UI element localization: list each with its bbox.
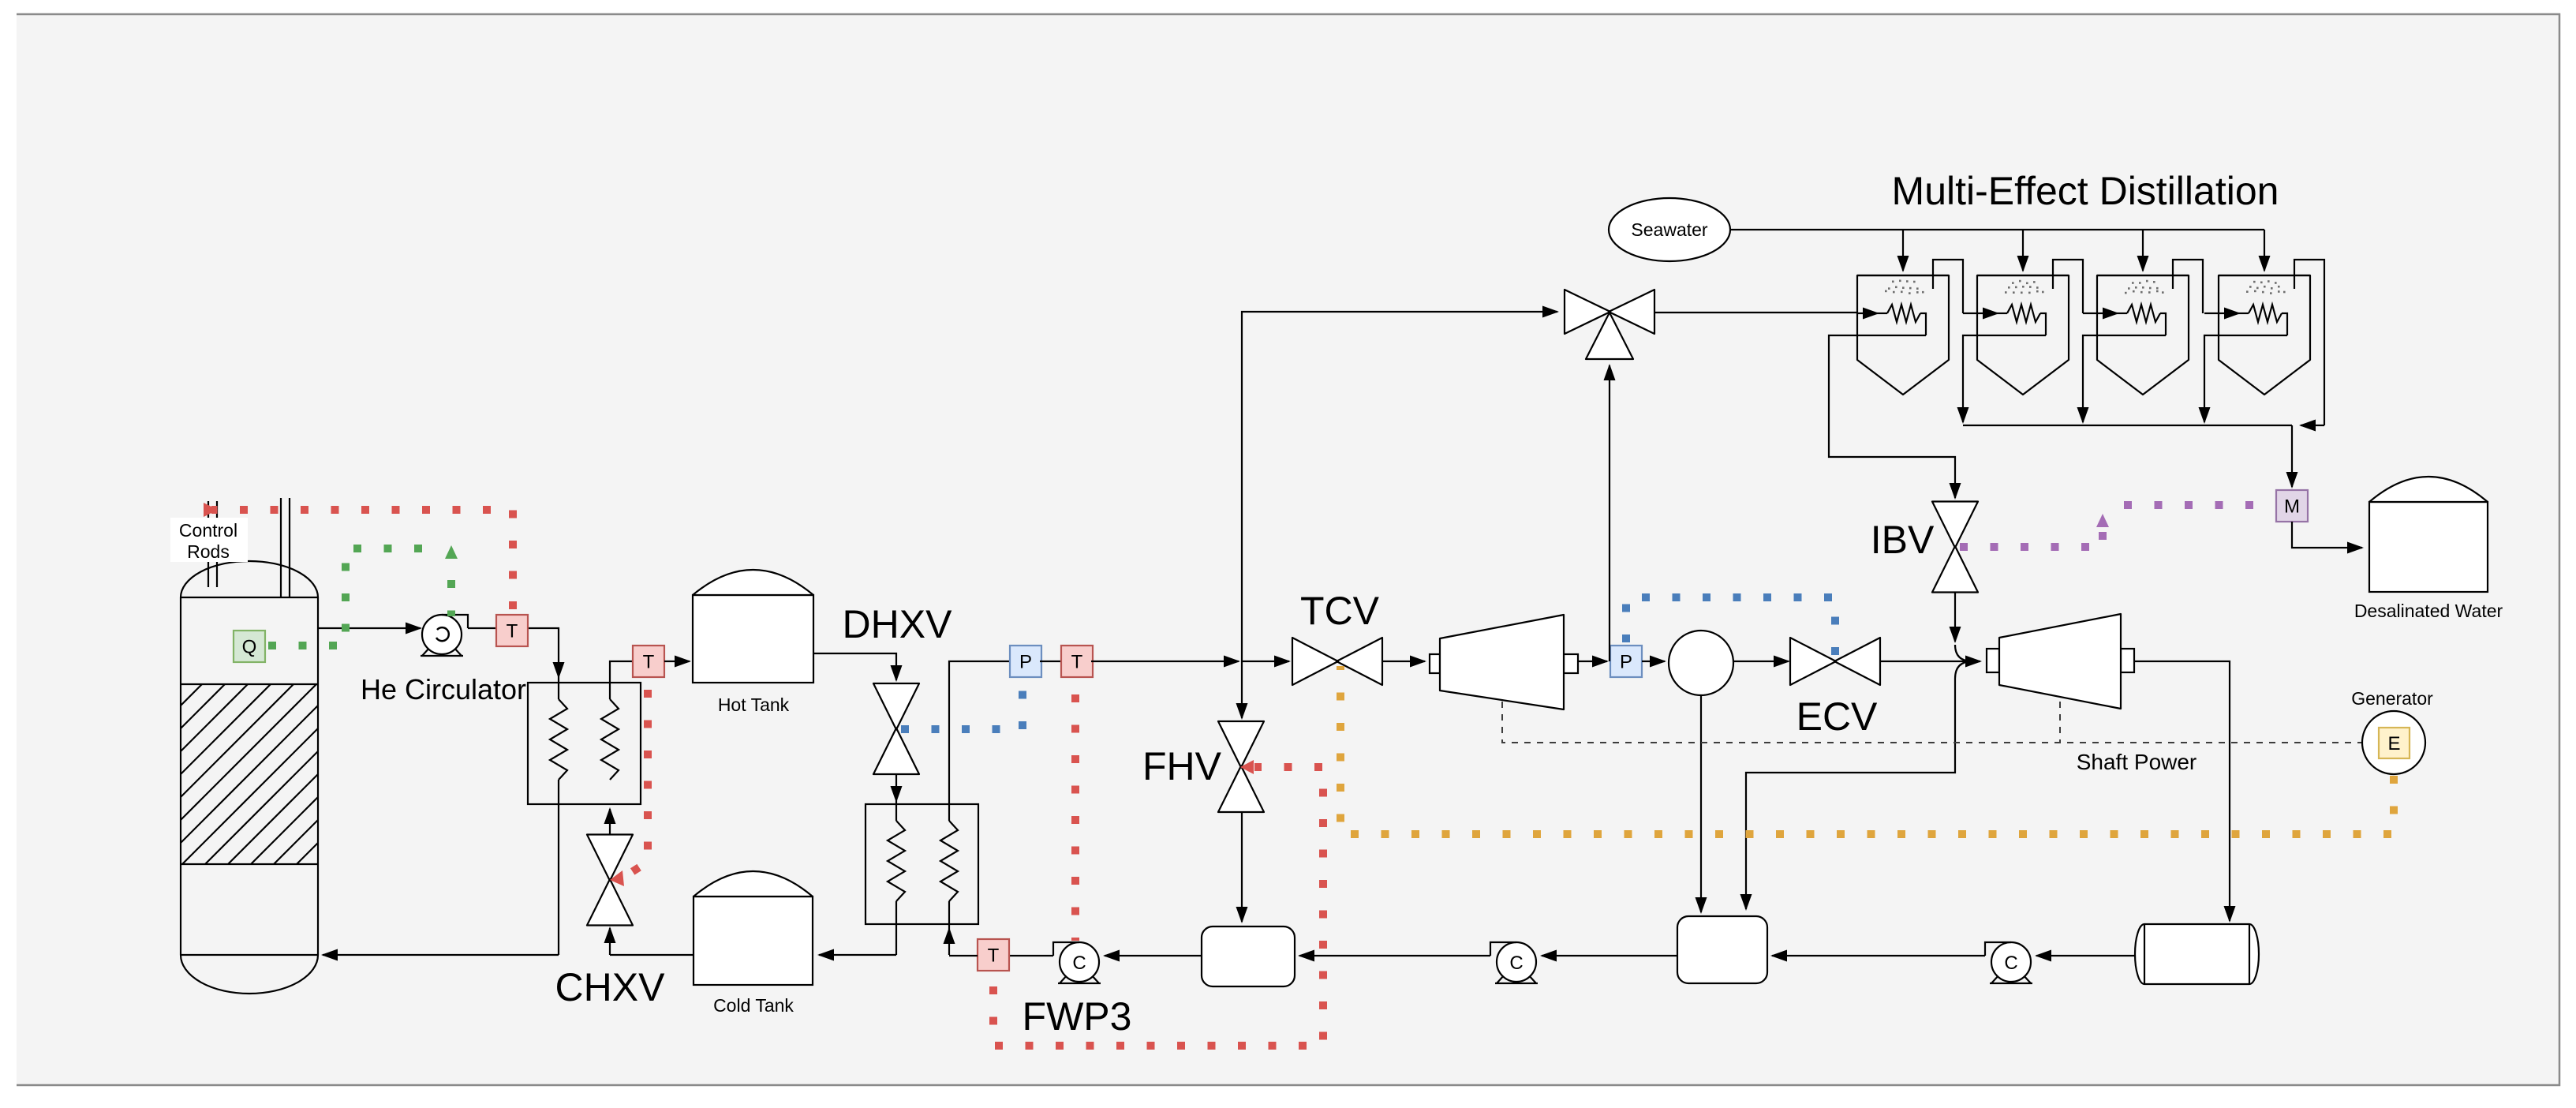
svg-text:TCV: TCV bbox=[1300, 589, 1380, 633]
wire HX2 left coil to cold tank bbox=[819, 901, 896, 955]
valve DHXV bbox=[873, 683, 919, 774]
valve IBV bbox=[1932, 502, 1978, 593]
wire junction riser to three-way valve bbox=[1242, 312, 1557, 661]
distillate drop 4 bbox=[2204, 335, 2287, 422]
wire reactor outlet to He circulator bbox=[318, 627, 421, 629]
control rods bbox=[208, 498, 290, 597]
wire CHXV to HX1 right coil bbox=[609, 809, 611, 835]
pump FWP3 bbox=[1053, 942, 1101, 983]
svg-text:Shaft Power: Shaft Power bbox=[2077, 750, 2197, 774]
svg-text:IBV: IBV bbox=[1871, 518, 1935, 562]
separator drum bbox=[1669, 631, 1733, 695]
svg-text:P: P bbox=[1019, 651, 1032, 672]
svg-text:T: T bbox=[1071, 651, 1083, 672]
pump He circulator bbox=[421, 615, 468, 656]
distillate collector line bbox=[1963, 425, 2324, 426]
wire junction to FHV bbox=[1241, 661, 1243, 718]
svg-text:Cold Tank: Cold Tank bbox=[713, 995, 794, 1016]
wire separator to ECV bbox=[1733, 661, 1789, 662]
signal yellow TCV to generator bbox=[1340, 666, 2394, 834]
wire TCV to turbine 1 bbox=[1382, 661, 1425, 662]
svg-text:Generator: Generator bbox=[2351, 688, 2433, 709]
wire separator to FWH2 bbox=[1700, 695, 1702, 912]
wire junction to TCV bbox=[1242, 661, 1289, 662]
svg-text:ECV: ECV bbox=[1796, 694, 1878, 739]
feedwater heater FWH1 bbox=[1202, 926, 1295, 986]
sensor P2 bbox=[1610, 646, 1642, 677]
wire pump to sensor T1 bbox=[468, 627, 497, 629]
wire P1 to T3 bbox=[1040, 661, 1061, 662]
wire M to desalinated water tank bbox=[2292, 522, 2362, 548]
svg-text:T: T bbox=[507, 620, 518, 642]
signal red T3 to FWP3 bbox=[1071, 694, 1079, 941]
turbine 1 bbox=[1430, 615, 1578, 709]
seawater source bbox=[1609, 198, 1730, 261]
wire collector to sensor M bbox=[2291, 425, 2293, 487]
shaft power line bbox=[1502, 702, 2362, 743]
svg-text:C: C bbox=[1072, 953, 1086, 974]
sensor E bbox=[2379, 728, 2410, 758]
svg-text:C: C bbox=[2004, 953, 2017, 974]
seawater feed drop 1 bbox=[1902, 230, 1904, 271]
desalinated water tank bbox=[2369, 477, 2488, 592]
wire T1 to HX1 left coil bbox=[529, 628, 559, 699]
seawater feed drop 2 bbox=[2022, 230, 2024, 271]
wire ECV to turbine 2 inlet bbox=[1880, 661, 1980, 662]
pump CP2 bbox=[1490, 942, 1538, 983]
wire FHV to feedwater heater FWH1 bbox=[1241, 812, 1243, 922]
svg-text:T: T bbox=[643, 651, 655, 672]
heating coil 3 bbox=[2083, 305, 2166, 335]
wire turbine 2 to condenser bbox=[2134, 661, 2230, 921]
MED effect vessel 1 bbox=[1857, 275, 1949, 395]
svg-text:Control: Control bbox=[179, 520, 237, 541]
svg-text:Seawater: Seawater bbox=[1631, 219, 1708, 240]
wire feedwater to HX2 right coil bbox=[948, 901, 950, 955]
MED effect vessel 4 bbox=[2219, 275, 2310, 395]
vapor crook pipe 4 bbox=[2294, 260, 2324, 425]
spray nozzle 2 bbox=[2005, 280, 2044, 294]
wire cold tank to CHXV bbox=[610, 928, 694, 955]
sensor T1 bbox=[496, 615, 528, 646]
spray nozzle 1 bbox=[1885, 280, 1924, 294]
pump CP1 bbox=[1985, 942, 2032, 983]
sensor T4 bbox=[978, 939, 1009, 971]
wire turbine 2 inlet extraction to FWH2 bbox=[1746, 661, 1972, 909]
wire HX1 right coil to sensor T2 bbox=[610, 661, 633, 699]
feedwater heater FWH2 bbox=[1677, 916, 1767, 983]
turbine 2 bbox=[1987, 614, 2134, 709]
svg-text:DHXV: DHXV bbox=[843, 602, 953, 646]
signal red T4 to FHV bbox=[993, 760, 1323, 1046]
svg-text:He Circulator: He Circulator bbox=[361, 673, 526, 706]
svg-text:E: E bbox=[2387, 733, 2400, 754]
wire three-way valve to MED effect 1 bbox=[1655, 312, 1857, 313]
generator bbox=[2362, 711, 2425, 774]
heating coil 4 bbox=[2204, 305, 2287, 335]
vapor crook pipe 2 bbox=[2053, 260, 2083, 313]
three-way valve bbox=[1565, 290, 1654, 359]
svg-text:T: T bbox=[988, 945, 1000, 966]
MED effect vessel 3 bbox=[2097, 275, 2189, 395]
distillate drop 2 bbox=[1963, 335, 2046, 422]
wire turbine 1 to sensor P2 bbox=[1578, 661, 1607, 662]
reactor vessel bbox=[0, 561, 477, 994]
sensor T2 bbox=[633, 646, 664, 677]
sensor M bbox=[2276, 490, 2308, 522]
signal red T1 to control rods bbox=[204, 503, 513, 609]
wire FWH2 to pump CP2 bbox=[1542, 955, 1677, 956]
wire T2 to hot tank bbox=[664, 661, 690, 662]
MED effect vessel 2 bbox=[1977, 275, 2069, 395]
signal purple IBV to M bbox=[1960, 505, 2273, 547]
svg-text:CHXV: CHXV bbox=[555, 965, 666, 1009]
spray nozzle 4 bbox=[2246, 280, 2286, 294]
cold tank bbox=[694, 871, 813, 985]
wire FWH1 to pump FWP3 bbox=[1105, 955, 1202, 956]
condenser cylinder bbox=[2135, 924, 2259, 984]
signal blue P2 to ECV bbox=[1626, 597, 1835, 655]
condensate return effect 1 to IBV bbox=[1829, 335, 1955, 498]
sensor Q bbox=[234, 631, 265, 662]
hot tank bbox=[693, 570, 813, 683]
heating coil 1 bbox=[1857, 305, 1926, 335]
valve FHV bbox=[1218, 721, 1264, 812]
svg-text:Q: Q bbox=[242, 636, 257, 657]
seawater feed drop 3 bbox=[2142, 230, 2144, 271]
sensor T3 bbox=[1061, 646, 1093, 677]
signal red T2 to CHXV bbox=[610, 690, 648, 886]
wire IBV drop to turbine 2 inlet bbox=[1955, 593, 1972, 661]
svg-text:Rods: Rods bbox=[187, 541, 230, 562]
heat exchanger HX2 bbox=[866, 804, 978, 924]
vapor crook pipe 1 bbox=[1933, 260, 1963, 313]
control rods label bbox=[170, 518, 248, 562]
wire condenser to pump CP1 bbox=[2036, 955, 2135, 956]
svg-text:Multi-Effect Distillation: Multi-Effect Distillation bbox=[1892, 169, 2279, 213]
svg-text:M: M bbox=[2284, 496, 2300, 517]
heat exchanger HX1 bbox=[528, 683, 641, 804]
wire riser P2 junction to three-way valve bbox=[1609, 365, 1610, 661]
signal blue DHXV to P1 bbox=[901, 680, 1023, 729]
wire pump CP1 to FWH2 bbox=[1772, 955, 1985, 956]
wire HX2 right coil to sensor P1 bbox=[949, 661, 1010, 821]
distillate drop 3 bbox=[2083, 335, 2166, 422]
wire T4 to HX2 riser bbox=[949, 955, 978, 956]
valve CHXV bbox=[587, 835, 633, 926]
spray nozzle 3 bbox=[2125, 280, 2164, 294]
wire pump FWP3 to sensor T4 bbox=[1009, 955, 1053, 956]
wire HX1 left coil to reactor return bbox=[323, 780, 559, 955]
vapor crook pipe 3 bbox=[2173, 260, 2203, 313]
wire T3 to steam junction bbox=[1091, 661, 1239, 662]
svg-text:Desalinated Water: Desalinated Water bbox=[2354, 601, 2503, 621]
seawater header bbox=[1730, 229, 2264, 230]
seawater feed drop 4 bbox=[2264, 230, 2265, 271]
wire DHXV to HX2 left coil bbox=[895, 774, 897, 821]
signal green Q to He circulator bbox=[268, 545, 458, 646]
valve ECV bbox=[1790, 638, 1880, 685]
sensor P1 bbox=[1010, 646, 1041, 677]
svg-text:P: P bbox=[1620, 651, 1632, 672]
svg-text:FHV: FHV bbox=[1142, 744, 1222, 788]
svg-text:FWP3: FWP3 bbox=[1023, 994, 1132, 1039]
heating coil 2 bbox=[1963, 305, 2046, 335]
wire pump CP2 to FWH1 bbox=[1299, 955, 1490, 956]
svg-text:C: C bbox=[1509, 953, 1523, 974]
valve TCV bbox=[1292, 638, 1382, 685]
wire hot tank to DHXV bbox=[813, 653, 896, 680]
svg-text:Hot Tank: Hot Tank bbox=[718, 694, 790, 715]
wire P2 to separator bbox=[1642, 661, 1665, 662]
